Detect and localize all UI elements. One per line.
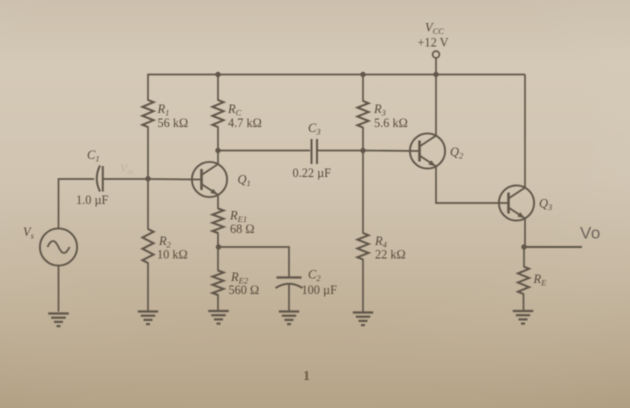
ground	[48, 314, 69, 327]
label R3 5.6 kOhm	[373, 102, 408, 130]
svg-text:56 kΩ: 56 kΩ	[158, 116, 189, 130]
wire	[362, 151, 364, 234]
label R4 22 kOhm	[374, 234, 406, 261]
resistor RC	[212, 100, 223, 127]
svg-text:100 µF: 100 µF	[302, 283, 338, 297]
label Q3	[539, 197, 552, 213]
wire	[103, 178, 148, 180]
wire	[217, 295, 219, 311]
transistor Q1	[192, 162, 227, 197]
resistor RE1	[212, 209, 223, 234]
wire	[363, 150, 420, 153]
label C1 1.0 uF	[76, 148, 109, 207]
Vcc supply terminal	[433, 51, 440, 74]
label R2 10 kOhm	[157, 234, 188, 261]
resistor R1	[142, 100, 153, 127]
wire	[58, 179, 60, 228]
wire C3 to R3 node	[317, 150, 363, 152]
wire	[523, 294, 525, 311]
wire	[217, 151, 219, 164]
wire	[147, 75, 149, 101]
label Vs	[23, 225, 35, 241]
label C3 0.22 uF	[293, 121, 332, 180]
wire	[217, 75, 219, 101]
transistor Q3	[499, 185, 534, 220]
wire	[217, 127, 219, 151]
node R3/C3/R4/Q2 base	[360, 148, 365, 153]
svg-text:0.22 µF: 0.22 µF	[293, 166, 332, 180]
wire	[523, 247, 525, 267]
label RC 4.7 kOhm	[227, 102, 262, 130]
source Vs	[40, 228, 77, 265]
ground	[279, 312, 299, 325]
wire top supply rail	[148, 74, 526, 76]
wire	[147, 127, 149, 179]
wire	[524, 218, 526, 247]
wire	[217, 233, 219, 247]
wire right rail down to Q3 collector	[524, 75, 526, 188]
wire	[59, 178, 94, 180]
svg-text:1.0 µF: 1.0 µF	[76, 193, 109, 207]
wire output to Vo	[524, 246, 582, 248]
wire	[288, 247, 290, 277]
node collector junction Q1/RC	[215, 148, 220, 153]
svg-text:4.7 kΩ: 4.7 kΩ	[228, 116, 262, 130]
wire	[217, 195, 219, 209]
node input junction	[145, 176, 150, 181]
node output junction	[521, 244, 526, 249]
wire	[58, 266, 60, 311]
node Vcc rail junction	[433, 72, 438, 77]
wire	[436, 202, 509, 204]
resistor R4	[357, 233, 368, 260]
capacitor C2 100 uF	[276, 278, 303, 289]
svg-text:560 Ω: 560 Ω	[229, 283, 260, 297]
node rail junction RC	[215, 72, 220, 77]
svg-text:1: 1	[303, 369, 310, 384]
ground	[208, 311, 229, 324]
wire	[362, 75, 364, 102]
label Q2	[450, 145, 464, 161]
svg-text:+12 V: +12 V	[418, 36, 449, 50]
wire	[362, 128, 364, 151]
wire	[288, 285, 290, 311]
label RE2 560 Ohm	[229, 270, 260, 297]
wire	[219, 246, 290, 248]
wire	[148, 178, 202, 181]
label RE1 68 Ohm	[229, 209, 255, 237]
resistor RE2	[212, 271, 223, 296]
wire RC node to C3	[218, 150, 310, 152]
transistor Q2	[410, 133, 445, 168]
wire	[435, 166, 437, 203]
node rail junction R3	[360, 72, 365, 77]
svg-text:68 Ω: 68 Ω	[230, 222, 255, 236]
svg-text:Vo: Vo	[580, 224, 601, 243]
wire	[147, 263, 149, 311]
ground	[513, 311, 533, 324]
ground	[353, 313, 373, 326]
capacitor C3 0.22 uF	[312, 139, 318, 164]
label R1 56 kOhm	[157, 102, 189, 130]
resistor R3	[357, 101, 368, 128]
ground	[138, 312, 158, 325]
label C2 100 uF	[302, 268, 338, 298]
svg-text:5.6 kΩ: 5.6 kΩ	[374, 116, 408, 130]
resistor RE	[518, 267, 529, 295]
label RE	[533, 272, 548, 288]
svg-text:10 kΩ: 10 kΩ	[157, 247, 188, 261]
wire	[362, 260, 364, 313]
node Vcc label	[418, 21, 449, 50]
wire	[217, 247, 219, 271]
svg-text:22 kΩ: 22 kΩ	[375, 247, 406, 261]
label Q1	[238, 173, 251, 189]
wire	[435, 75, 437, 136]
wire	[147, 179, 149, 230]
node emitter junction	[216, 244, 221, 249]
capacitor C1 1.0 uF	[97, 166, 103, 192]
resistor R2	[142, 229, 153, 263]
